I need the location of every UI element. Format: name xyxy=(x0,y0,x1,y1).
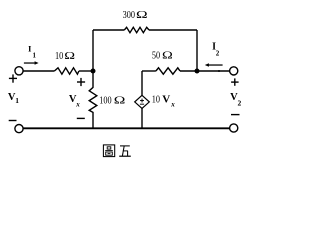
port terminal bottom-left (V1 -) xyxy=(15,125,23,133)
svg-text:1: 1 xyxy=(33,52,37,60)
corner: 50-ohm / dependent source branch xyxy=(142,70,156,72)
node B junction dot xyxy=(195,69,200,74)
svg-text:1: 1 xyxy=(15,96,19,105)
svg-text:x: x xyxy=(170,101,175,109)
small dot on wire near right port xyxy=(218,70,220,72)
label 10Vx xyxy=(152,93,176,108)
svg-text:Ω: Ω xyxy=(114,94,126,106)
label V1 xyxy=(8,92,19,105)
svg-text:Ω: Ω xyxy=(162,49,173,61)
svg-text:10: 10 xyxy=(152,93,160,105)
svg-text:I: I xyxy=(28,44,32,54)
label I1 xyxy=(28,44,37,60)
wire: 50-ohm to node B xyxy=(180,70,197,72)
current arrow I2 (pointing left) xyxy=(205,63,223,67)
polarity minus of Vx xyxy=(77,118,85,119)
polarity + of Vx xyxy=(77,78,85,86)
polarity minus of V2 xyxy=(231,114,240,115)
label I2 xyxy=(212,41,220,57)
caption: character TU (figure) of 圖五 xyxy=(103,145,114,157)
svg-text:2: 2 xyxy=(238,99,242,108)
caption: character WU (five) of 圖五 xyxy=(119,146,131,156)
svg-text:100: 100 xyxy=(99,94,111,106)
wire: node B to right port xyxy=(197,70,229,72)
resistor 100-ohm (vertical zigzag with leads) xyxy=(89,71,97,128)
port terminal top-right (V2 +) xyxy=(230,67,238,75)
wire: top rail right segment xyxy=(149,29,197,31)
polarity + of V1 xyxy=(9,74,17,82)
polarity minus of V1 xyxy=(9,120,17,121)
wire: corner down to dependent source xyxy=(141,71,143,95)
svg-text:x: x xyxy=(75,101,80,109)
svg-text:Ω: Ω xyxy=(64,50,75,62)
label V2 xyxy=(230,92,241,107)
svg-text:Ω: Ω xyxy=(136,8,148,20)
label Vx xyxy=(69,94,80,109)
svg-text:50: 50 xyxy=(152,50,160,62)
polarity + inside diamond xyxy=(140,99,144,103)
label 10 ohm xyxy=(55,50,75,63)
wire: top rail down to node B xyxy=(196,30,198,71)
port terminal bottom-right (V2 -) xyxy=(230,124,238,132)
bottom rail wire xyxy=(23,127,229,129)
dependent source 10Vx (diamond) xyxy=(135,95,150,108)
wire: top rail left segment xyxy=(93,29,124,31)
resistor 300-ohm (zigzag) xyxy=(124,27,149,32)
svg-text:V: V xyxy=(162,93,170,105)
wire: 10-ohm to node A xyxy=(79,70,93,72)
svg-text:300: 300 xyxy=(123,9,135,21)
polarity + of V2 xyxy=(231,78,239,85)
wire: left port to 10-ohm resistor xyxy=(23,70,54,72)
label 50 ohm xyxy=(152,49,173,62)
current arrow I1 xyxy=(24,61,39,65)
resistor 50-ohm (zigzag) xyxy=(156,68,180,74)
polarity minus inside diamond xyxy=(140,103,144,106)
label 100 ohm xyxy=(99,94,125,107)
wire: dependent source to bottom rail xyxy=(141,109,143,129)
label 300 ohm xyxy=(123,8,148,21)
node A junction dot xyxy=(91,69,96,74)
port terminal top-left (V1 +) xyxy=(15,67,23,75)
wire: node A up to top rail xyxy=(92,30,94,71)
svg-text:2: 2 xyxy=(216,50,220,58)
resistor 10-ohm (zigzag) xyxy=(54,68,79,74)
svg-text:10: 10 xyxy=(55,50,63,62)
